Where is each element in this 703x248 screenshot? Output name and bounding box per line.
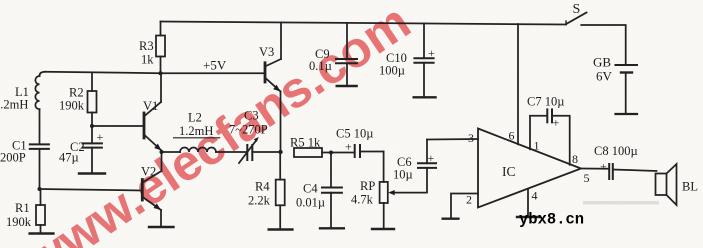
node +5V junction [159,71,163,75]
wire V1 base [92,125,143,127]
resistor R5 [294,148,355,157]
resistor R4 [276,152,285,229]
wire pin 4 [527,189,529,215]
node R2/C2/V1 base junction [90,124,94,128]
svg-text:1.2mH: 1.2mH [179,124,213,138]
capacitor C7 with pin1 pin8 wires [530,109,570,164]
svg-text:R3: R3 [139,39,154,53]
ground under C9 [337,85,357,87]
svg-text:190k: 190k [6,215,32,229]
svg-text:1.2mH: 1.2mH [0,98,28,112]
svg-text:47µ: 47µ [59,151,79,165]
resistor R1 [36,189,45,233]
svg-text:RP: RP [360,179,375,193]
svg-text:3: 3 [468,131,474,145]
svg-text:1: 1 [534,139,540,153]
svg-text:8: 8 [572,152,578,166]
wire pin 5 to C8 [581,168,609,170]
ground under C2 [79,172,105,174]
wire V2 base [40,189,142,191]
svg-text:100µ: 100µ [379,64,405,78]
capacitor C10 [414,23,433,95]
svg-text:C3: C3 [244,109,259,123]
svg-text:6: 6 [509,129,515,143]
svg-text:R2: R2 [69,86,84,100]
wire L2 left [162,151,181,153]
ground under C10 [414,96,436,98]
svg-text:200P: 200P [0,151,26,165]
svg-text:BL: BL [682,180,698,194]
svg-text:C5 10µ: C5 10µ [336,127,373,141]
capacitor C9 [336,23,357,85]
svg-text:7~270P: 7~270P [229,123,268,137]
svg-text:+: + [97,130,104,144]
capacitor C1 [30,144,49,189]
svg-text:L2: L2 [188,111,202,125]
ground under V2 [149,226,174,228]
svg-text:2.2k: 2.2k [248,194,271,208]
wire +V top rail [161,22,567,25]
resistor R3 [156,22,165,74]
capacitor C5 [355,145,384,182]
svg-text:IC: IC [502,164,516,179]
resistor R2 [88,73,97,127]
svg-text:V2: V2 [141,165,156,179]
svg-text:0.1µ: 0.1µ [309,59,332,73]
svg-text:2: 2 [466,193,472,207]
ground under C4 [320,227,344,229]
inductor L2 [180,148,247,153]
svg-text:6V: 6V [596,69,613,84]
speaker BL [656,164,677,205]
svg-text:S: S [573,2,581,17]
capacitor C3 variable [239,137,281,163]
wire pin3 [427,138,478,141]
pin 6 wire [517,24,519,144]
node C3/R4/R5 junction [278,150,282,154]
svg-text:V1: V1 [143,99,158,113]
op-amp IC [478,129,581,208]
inductor L1 [35,72,45,144]
ground at pin 4 [517,216,539,218]
wire pin2 [451,194,478,218]
capacitor C8 [609,164,656,179]
svg-text:R1: R1 [15,201,30,215]
switch S [566,13,587,25]
svg-text:+5V: +5V [203,58,227,73]
capacitor C2 [83,126,102,172]
capacitor C4 [322,153,342,228]
node C4 junction [329,151,333,155]
svg-text:4.7k: 4.7k [351,193,374,207]
scan artifact smudge [583,201,659,205]
wire +5V rail [45,72,263,73]
potentiometer RP [380,182,426,228]
svg-text:R4: R4 [255,180,270,194]
ground under R1 [30,232,54,234]
svg-text:1k: 1k [141,53,154,67]
svg-text:C8 100µ: C8 100µ [594,144,638,158]
node V1 emitter junction [160,150,164,154]
ground under RP [372,228,394,230]
svg-text:ybx8.cn: ybx8.cn [519,211,584,229]
svg-text:10µ: 10µ [393,168,413,182]
transistor V3 [265,22,281,152]
svg-text:V3: V3 [259,45,274,59]
svg-text:R5 1k: R5 1k [290,136,321,150]
svg-text:C7 10µ: C7 10µ [527,95,564,109]
transistor V2 [142,152,161,226]
svg-text:+: + [428,151,435,165]
battery GB [616,65,638,114]
svg-text:190k: 190k [59,99,85,113]
transistor V1 [144,73,162,150]
svg-text:5: 5 [584,171,590,185]
node C1/R1 junction [38,187,42,191]
svg-text:C4: C4 [303,182,318,196]
svg-text:+: + [345,140,352,154]
capacitor C6 [418,140,436,193]
svg-text:0.01µ: 0.01µ [296,196,325,210]
svg-text:+: + [600,160,607,174]
ground under R4 [269,228,293,230]
svg-text:+: + [428,46,435,60]
svg-text:+: + [553,116,560,130]
svg-text:GB: GB [593,55,611,70]
wire top rail right of switch S [581,25,625,65]
watermark www.elecfans.com [14,0,420,248]
svg-text:4: 4 [532,189,538,203]
ground at pin 2 [443,217,459,219]
